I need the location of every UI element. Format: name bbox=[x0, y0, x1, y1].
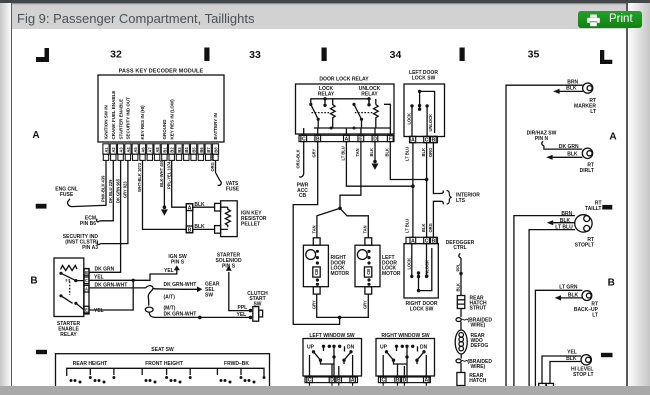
relay K1 dashed link bbox=[69, 282, 71, 296]
arrow up to IGN SW PIN S bbox=[174, 265, 180, 270]
ground arrow marker lamp bbox=[553, 89, 559, 94]
svg-text:A6: A6 bbox=[140, 147, 145, 153]
fiducial tick 32/33 bbox=[204, 48, 209, 62]
fiducial dash left A/B bbox=[36, 204, 47, 209]
dir/haz pigtail bbox=[542, 141, 544, 146]
wire to braided joint lower bbox=[460, 354, 462, 359]
fiducial tick 33/34 bbox=[322, 48, 327, 62]
svg-text:BRN: BRN bbox=[561, 211, 572, 217]
svg-text:LT: LT bbox=[592, 313, 598, 319]
svg-text:MOTOR: MOTOR bbox=[382, 271, 401, 277]
S2 unlock contact riser bbox=[426, 244, 428, 277]
svg-text:LT GRN: LT GRN bbox=[559, 284, 578, 290]
interior lts brace bbox=[447, 191, 452, 205]
svg-text:PIN S: PIN S bbox=[171, 259, 185, 265]
bottom terminal pads bbox=[539, 383, 546, 386]
wire GRY from relay B to PWR ACC CB run bbox=[293, 142, 339, 325]
clutch start sw pin dots bbox=[249, 309, 253, 313]
interior lts pigtail upper bbox=[441, 191, 444, 194]
S4 pin strip bbox=[378, 377, 430, 386]
ground arrow tail lamp bbox=[547, 220, 553, 225]
svg-text:C: C bbox=[425, 137, 429, 143]
fiducial tick 34/35 bbox=[460, 48, 465, 62]
svg-text:LOCK: LOCK bbox=[407, 258, 412, 270]
relay K1 contact dots bbox=[59, 272, 62, 275]
wire BRN taillight bbox=[514, 216, 575, 387]
svg-text:GRY 923: GRY 923 bbox=[123, 181, 128, 198]
junction dot YEL bbox=[132, 279, 135, 282]
svg-text:B: B bbox=[188, 228, 192, 234]
wire BLK hi level bbox=[550, 362, 581, 384]
bulb RT tail/stop (dual) bbox=[575, 215, 592, 232]
svg-text:BLK: BLK bbox=[369, 148, 374, 156]
unlock relay K3 coil bbox=[374, 105, 379, 129]
svg-text:A: A bbox=[32, 130, 39, 141]
seat switch contact dots bbox=[70, 376, 266, 384]
svg-text:A4: A4 bbox=[126, 147, 131, 153]
svg-text:BLK: BLK bbox=[421, 224, 426, 232]
svg-text:DK GRN 965: DK GRN 965 bbox=[115, 178, 120, 203]
rear hatch component bbox=[457, 373, 465, 386]
wire BLK tail ground bbox=[551, 222, 575, 224]
wire PPL/BLK defogger drop bbox=[460, 258, 462, 296]
lock relay K2 top wire bbox=[311, 99, 369, 105]
seat switch bus wire bbox=[67, 368, 264, 376]
relay K1 pin strip bbox=[84, 269, 89, 314]
wire to rear hatch bbox=[460, 363, 462, 373]
S3 pin strip bbox=[305, 377, 358, 386]
lock relay K2 armature stub bbox=[324, 99, 326, 106]
relay pin verticals bbox=[304, 128, 375, 134]
wire BLK-WHT 450 from pin B1 to ground bbox=[163, 160, 165, 207]
svg-text:YEL: YEL bbox=[94, 274, 104, 280]
svg-text:GRY: GRY bbox=[311, 300, 316, 309]
svg-text:B2: B2 bbox=[170, 147, 175, 153]
svg-text:TAN: TAN bbox=[311, 225, 316, 233]
wire BRN feed right column bbox=[506, 85, 583, 387]
svg-text:B: B bbox=[337, 378, 341, 384]
svg-text:(A/T): (A/T) bbox=[164, 294, 176, 300]
svg-text:PIN N: PIN N bbox=[535, 136, 549, 142]
wire LT BLU S1-A down to S2-A bbox=[412, 143, 414, 238]
S1 common wire bbox=[420, 91, 435, 133]
wire BLK from relay F bbox=[390, 142, 427, 180]
svg-text:RELAY: RELAY bbox=[361, 91, 378, 97]
svg-text:A1: A1 bbox=[104, 147, 109, 153]
svg-text:DOOR LOCK RELAY: DOOR LOCK RELAY bbox=[319, 77, 369, 83]
svg-text:35: 35 bbox=[528, 49, 540, 61]
svg-text:YEL: YEL bbox=[567, 350, 577, 356]
S1 lock contact drop bbox=[411, 106, 413, 136]
svg-text:BATTERY IN: BATTERY IN bbox=[213, 113, 218, 139]
pellet pin box upper bbox=[215, 203, 221, 211]
svg-text:LT BLU: LT BLU bbox=[405, 147, 410, 161]
svg-text:B8: B8 bbox=[213, 147, 218, 153]
wire DK GRN 965 from pin A3 to starter enable relay pin B bbox=[89, 160, 121, 272]
M/T connector oval bbox=[145, 307, 153, 312]
svg-text:DK GRN-WHT: DK GRN-WHT bbox=[164, 311, 197, 317]
arrow up to STARTER SOLENOID PIN S bbox=[226, 266, 232, 271]
wire TAN from relay E bbox=[340, 142, 361, 209]
wire LT BLU stop bbox=[529, 230, 575, 387]
svg-text:STOP LT: STOP LT bbox=[573, 372, 594, 378]
fuse pigtail ENG CNL bbox=[68, 199, 72, 207]
svg-text:LOCK SW: LOCK SW bbox=[412, 76, 436, 82]
svg-text:32: 32 bbox=[110, 49, 122, 61]
svg-text:HATCH: HATCH bbox=[469, 378, 487, 384]
svg-text:E: E bbox=[85, 308, 88, 313]
svg-text:B: B bbox=[432, 137, 436, 143]
defogger ctrl pigtail bbox=[459, 253, 461, 258]
wire BLK connector B to pellet bbox=[193, 228, 215, 230]
svg-text:FUSE: FUSE bbox=[60, 192, 74, 198]
pellet pin box lower bbox=[215, 226, 221, 234]
bulb RT marker lt bbox=[583, 83, 593, 93]
svg-text:D: D bbox=[373, 136, 377, 142]
svg-text:A2: A2 bbox=[111, 147, 116, 153]
svg-text:C: C bbox=[308, 378, 312, 384]
S1 unlock contact drop bbox=[426, 106, 428, 136]
M1 brush dots bbox=[316, 250, 319, 253]
svg-text:WIRE): WIRE) bbox=[471, 364, 486, 370]
wire BLK connector A to pellet bbox=[193, 206, 215, 208]
svg-text:CB: CB bbox=[299, 193, 307, 199]
ground arrow dir lamp bbox=[546, 155, 552, 160]
svg-text:PIN S: PIN S bbox=[222, 263, 236, 269]
svg-text:B: B bbox=[396, 378, 400, 384]
fiducial corner mark top-left bbox=[36, 48, 49, 62]
svg-text:D: D bbox=[403, 378, 407, 384]
wire DK BLU 229 from pin A2 to ECM bbox=[100, 160, 113, 220]
svg-text:BLK: BLK bbox=[566, 86, 577, 92]
bulb RT dir lt bbox=[582, 148, 592, 158]
svg-text:MOTOR: MOTOR bbox=[331, 271, 350, 277]
svg-text:BRN: BRN bbox=[567, 79, 578, 85]
svg-text:DN: DN bbox=[420, 344, 428, 350]
fiducial dash right A/B (beside RT TAILLT) bbox=[602, 205, 612, 210]
svg-text:FRONT HEIGHT: FRONT HEIGHT bbox=[145, 361, 183, 367]
svg-text:34: 34 bbox=[390, 49, 402, 61]
svg-text:PPL-YEL 1074: PPL-YEL 1074 bbox=[166, 161, 171, 189]
TAN branch to left door lock motor bbox=[340, 208, 368, 238]
lock relay contact dots bbox=[309, 103, 312, 106]
svg-text:DIRLT: DIRLT bbox=[580, 168, 594, 174]
starter enable relay K1 box bbox=[54, 258, 84, 317]
svg-text:A: A bbox=[188, 205, 192, 211]
svg-text:ORG-BLK: ORG-BLK bbox=[296, 149, 301, 168]
svg-text:33: 33 bbox=[249, 49, 261, 61]
svg-text:A: A bbox=[85, 287, 88, 292]
svg-text:CB: CB bbox=[366, 269, 371, 275]
svg-text:STARTER ENABLE: STARTER ENABLE bbox=[118, 99, 123, 140]
svg-text:A: A bbox=[351, 378, 355, 384]
svg-text:A3: A3 bbox=[119, 147, 124, 153]
svg-text:SW: SW bbox=[205, 292, 213, 298]
svg-text:TAN: TAN bbox=[355, 148, 360, 156]
unlock relay K3 armature stub bbox=[368, 99, 370, 106]
svg-text:DK GRN: DK GRN bbox=[95, 267, 115, 273]
wire STARTER SOLENOID PIN S drop bbox=[229, 272, 249, 311]
S4 contacts wiring bbox=[383, 346, 426, 377]
svg-text:DN: DN bbox=[347, 344, 355, 350]
svg-text:SECURITY IND OUT: SECURITY IND OUT bbox=[126, 97, 131, 140]
svg-text:PPL: PPL bbox=[455, 263, 460, 271]
svg-text:STRUT: STRUT bbox=[470, 306, 487, 312]
svg-text:PIN B6: PIN B6 bbox=[80, 221, 96, 227]
svg-text:LT: LT bbox=[590, 109, 596, 115]
svg-text:DEFOG: DEFOG bbox=[471, 343, 489, 349]
fuse pigtail VATS bbox=[218, 181, 222, 186]
svg-text:RELAY: RELAY bbox=[318, 91, 335, 97]
svg-text:PIN A3: PIN A3 bbox=[82, 245, 98, 251]
svg-text:B1: B1 bbox=[162, 147, 167, 153]
svg-text:YEL: YEL bbox=[94, 308, 104, 314]
svg-text:B: B bbox=[608, 278, 615, 289]
left door lock motor M2 bbox=[340, 238, 380, 318]
svg-text:BLK: BLK bbox=[566, 356, 577, 362]
svg-text:BLK-WHT 450: BLK-WHT 450 bbox=[159, 159, 164, 187]
junction dot LT BLU/relay-A bbox=[411, 184, 415, 188]
svg-text:DK BLU 229: DK BLU 229 bbox=[108, 179, 113, 203]
wire DK GRN-WHT relay A to gear sel sw bbox=[89, 287, 146, 289]
svg-text:BLK: BLK bbox=[421, 148, 426, 156]
svg-text:B7: B7 bbox=[206, 147, 211, 153]
relay bottom bus bbox=[314, 99, 391, 134]
module pin numbers A1-B8 bbox=[104, 147, 218, 153]
svg-text:A5: A5 bbox=[133, 147, 138, 153]
wire DK GRN from dir/haz sw bbox=[544, 146, 582, 149]
ground G2 (relay D) bbox=[373, 160, 377, 164]
svg-text:CRANK FUEL ENABLE: CRANK FUEL ENABLE bbox=[111, 91, 116, 140]
braided wire symbol lower bbox=[456, 359, 461, 363]
fiducial corner mark top-right bbox=[600, 50, 612, 64]
svg-text:A: A bbox=[424, 378, 428, 384]
unlock relay contact dots bbox=[352, 103, 355, 106]
pigtail SECURITY IND bbox=[97, 241, 100, 244]
wire ORG 440 from pin B8 to VATS fuse bbox=[216, 160, 220, 180]
svg-text:DK GRN-WHT: DK GRN-WHT bbox=[164, 282, 197, 288]
wire to GEAR SEL SW arrow bbox=[153, 288, 199, 291]
svg-text:YEL: YEL bbox=[164, 268, 174, 274]
wire ORG S1-B upper segment bbox=[433, 143, 440, 194]
svg-text:A7: A7 bbox=[148, 147, 153, 153]
lock relay K2 coil bbox=[331, 99, 336, 128]
lock relay K2 contact arm bbox=[311, 104, 318, 128]
A/T loop bbox=[146, 286, 153, 306]
lock relay K2 dashed link bbox=[312, 112, 331, 114]
right door lock switch S2 box bbox=[404, 244, 438, 298]
S2 common wire bbox=[419, 248, 432, 291]
svg-text:PPL: PPL bbox=[238, 305, 248, 311]
fiducial dash left bottom bbox=[36, 350, 47, 354]
key connector strip A/B bbox=[186, 204, 192, 233]
svg-text:A: A bbox=[411, 137, 415, 143]
S2 lock contact riser bbox=[411, 244, 413, 277]
wire BLK dir ground bbox=[550, 156, 582, 158]
svg-text:GRY: GRY bbox=[363, 300, 368, 309]
svg-text:PELLET: PELLET bbox=[241, 222, 260, 228]
svg-text:C: C bbox=[302, 136, 306, 142]
ground arrow back-up lamp bbox=[555, 295, 561, 300]
junction dot GRY/motor return bbox=[338, 316, 342, 320]
fiducial dash right bottom bbox=[601, 353, 613, 357]
wire BLK marker ground bbox=[557, 90, 583, 92]
svg-text:PNK-BLK 439: PNK-BLK 439 bbox=[101, 175, 106, 202]
svg-text:KEY RES IN (LOW): KEY RES IN (LOW) bbox=[169, 99, 174, 140]
wire PPL-YEL 1074 from pin B2 to key connector A bbox=[172, 160, 187, 207]
svg-text:UP: UP bbox=[307, 344, 315, 350]
S2 pin strip (right door lock sw, pins on top) bbox=[406, 237, 438, 243]
junction dot TAN split bbox=[338, 207, 342, 211]
svg-text:FUSE: FUSE bbox=[226, 187, 240, 193]
svg-text:B: B bbox=[30, 276, 37, 287]
svg-text:ORG: ORG bbox=[428, 223, 433, 232]
wire ORG resume lower segment bbox=[433, 201, 440, 237]
M2 brush dots bbox=[367, 250, 370, 253]
S2 contact dots bbox=[417, 289, 420, 292]
svg-text:LT BLU: LT BLU bbox=[405, 219, 410, 233]
svg-text:STOPLT: STOPLT bbox=[575, 243, 594, 249]
svg-text:B: B bbox=[316, 136, 320, 142]
braided wire symbol upper bbox=[456, 318, 461, 322]
pigtail ORG-BLK bbox=[299, 174, 304, 177]
wire PNK-BLK 439 from pin A1 to ENG CNL fuse bbox=[72, 160, 107, 206]
S3 contact dots bbox=[322, 345, 325, 348]
S1 pin strip bbox=[410, 136, 438, 142]
svg-text:UNLOCK: UNLOCK bbox=[428, 114, 433, 132]
bulb hi level stop lt bbox=[581, 355, 591, 365]
wire to rear wdo defog bbox=[460, 322, 462, 331]
resistor R1 element bbox=[221, 207, 231, 229]
svg-text:C: C bbox=[85, 278, 88, 283]
svg-text:BLK: BLK bbox=[568, 293, 579, 299]
svg-text:B3: B3 bbox=[177, 147, 182, 153]
svg-text:GRY: GRY bbox=[312, 149, 317, 158]
wire LT GRN back-up bbox=[535, 290, 582, 387]
door lock relay pin strip bbox=[299, 135, 394, 141]
right window switch S4 box bbox=[376, 339, 435, 377]
pass key decoder module U1 box bbox=[98, 75, 224, 142]
svg-text:LT BLU: LT BLU bbox=[555, 225, 573, 231]
interior lts pigtail lower bbox=[441, 201, 444, 204]
wire GRY 923 from pin A4 to security indicator bbox=[101, 160, 128, 243]
wire BLK back-up ground bbox=[559, 297, 583, 299]
arrow right to GEAR SEL SW bbox=[197, 287, 203, 293]
svg-text:SEAT SW: SEAT SW bbox=[151, 347, 174, 353]
junction dot lower DK GRN-WHT bbox=[198, 316, 202, 320]
svg-text:ORG: ORG bbox=[428, 148, 433, 157]
svg-text:LOCK SW: LOCK SW bbox=[410, 306, 434, 312]
S4 contact dots bbox=[395, 345, 398, 348]
svg-text:BLK: BLK bbox=[560, 218, 571, 224]
svg-text:LTS: LTS bbox=[456, 198, 466, 204]
svg-text:IGNITION SW IN: IGNITION SW IN bbox=[104, 105, 109, 139]
junction dot BLK/relay-F bbox=[425, 178, 429, 182]
rear hatch strut component bbox=[457, 296, 465, 309]
S1 contact dots bbox=[418, 90, 421, 93]
svg-text:WHT-BLK 1073: WHT-BLK 1073 bbox=[137, 162, 142, 192]
svg-text:A: A bbox=[609, 132, 616, 143]
wire BLK from relay D to ground bbox=[374, 142, 376, 162]
wire LT BLU from relay A bbox=[346, 142, 413, 187]
unlock relay K3 contact arm bbox=[354, 104, 362, 128]
bulb RT back-up lt bbox=[582, 291, 592, 301]
right door lock motor M1 bbox=[303, 238, 339, 318]
rear window defogger grid element bbox=[455, 330, 467, 354]
svg-text:B: B bbox=[85, 270, 88, 275]
svg-text:BLK: BLK bbox=[567, 152, 578, 158]
svg-text:TAILLT: TAILLT bbox=[585, 206, 601, 212]
unlock relay K3 dashed link bbox=[355, 112, 374, 114]
svg-text:D: D bbox=[330, 378, 334, 384]
wire WHT-BLK 1073 from pin A6 to key connector B bbox=[143, 160, 187, 229]
pigtail ECM bbox=[97, 219, 100, 222]
svg-text:PASS KEY DECODER MODULE: PASS KEY DECODER MODULE bbox=[119, 69, 204, 75]
wire YEL branch to relay pin E bbox=[89, 280, 133, 310]
wire YEL hi level stop bbox=[542, 356, 581, 383]
TAN branch to right door lock motor bbox=[317, 208, 340, 238]
svg-text:BLK: BLK bbox=[455, 283, 460, 291]
svg-text:B4: B4 bbox=[184, 147, 189, 153]
svg-text:BLK: BLK bbox=[384, 148, 389, 156]
left door lock switch S1 box bbox=[404, 84, 445, 137]
svg-text:UP: UP bbox=[380, 344, 388, 350]
wire ORG-BLK from relay C bbox=[303, 142, 305, 174]
relay bus dots bbox=[330, 127, 333, 130]
ground G1 (BLK-WHT 450) bbox=[161, 205, 168, 215]
svg-text:CB: CB bbox=[314, 269, 319, 275]
svg-text:DK GRN: DK GRN bbox=[559, 144, 579, 150]
S3 contacts wiring bbox=[310, 346, 353, 377]
svg-text:GROUND: GROUND bbox=[162, 119, 167, 140]
seat switch S5 box bbox=[56, 354, 270, 388]
svg-text:LOCK: LOCK bbox=[407, 113, 412, 125]
svg-text:KEY RES IN (HI): KEY RES IN (HI) bbox=[140, 105, 145, 140]
wire YEL relay C to IGN SW PIN S bbox=[89, 269, 177, 281]
relay K1 contact arm lower bbox=[61, 296, 84, 310]
svg-text:REAR HEIGHT: REAR HEIGHT bbox=[73, 361, 107, 367]
svg-text:C: C bbox=[381, 378, 385, 384]
svg-text:CTRL: CTRL bbox=[453, 245, 466, 251]
svg-text:B5: B5 bbox=[192, 147, 197, 153]
door lock relay K2/K3 box bbox=[296, 84, 395, 134]
ign key resistor pellet R1 box bbox=[221, 201, 238, 237]
svg-text:B6: B6 bbox=[199, 147, 204, 153]
clutch start sw body bbox=[253, 307, 263, 322]
module connector pin boxes A1-B8 bbox=[103, 144, 219, 161]
wire DK GRN-WHT lower run to clutch start sw bbox=[149, 312, 249, 317]
svg-text:RELAY: RELAY bbox=[60, 332, 77, 338]
svg-text:A8: A8 bbox=[155, 147, 160, 153]
svg-text:A: A bbox=[345, 136, 349, 142]
svg-text:TAN: TAN bbox=[363, 225, 368, 233]
svg-text:LT BLU: LT BLU bbox=[340, 146, 345, 160]
svg-text:F: F bbox=[389, 136, 392, 142]
relay K1 coil bbox=[61, 266, 77, 271]
wire BLK S1-C down to S2-C bbox=[426, 143, 428, 238]
svg-text:UNLOCK: UNLOCK bbox=[424, 260, 429, 278]
svg-text:ORG 440: ORG 440 bbox=[210, 153, 215, 171]
left window switch S3 box bbox=[303, 339, 362, 377]
junction dot defogger PPL bbox=[459, 272, 462, 275]
svg-text:FRWD–BK: FRWD–BK bbox=[224, 361, 249, 367]
wire to braided joint bbox=[460, 309, 462, 318]
svg-text:WIRE): WIRE) bbox=[471, 322, 486, 328]
relay K1 contact arm upper bbox=[61, 273, 84, 280]
